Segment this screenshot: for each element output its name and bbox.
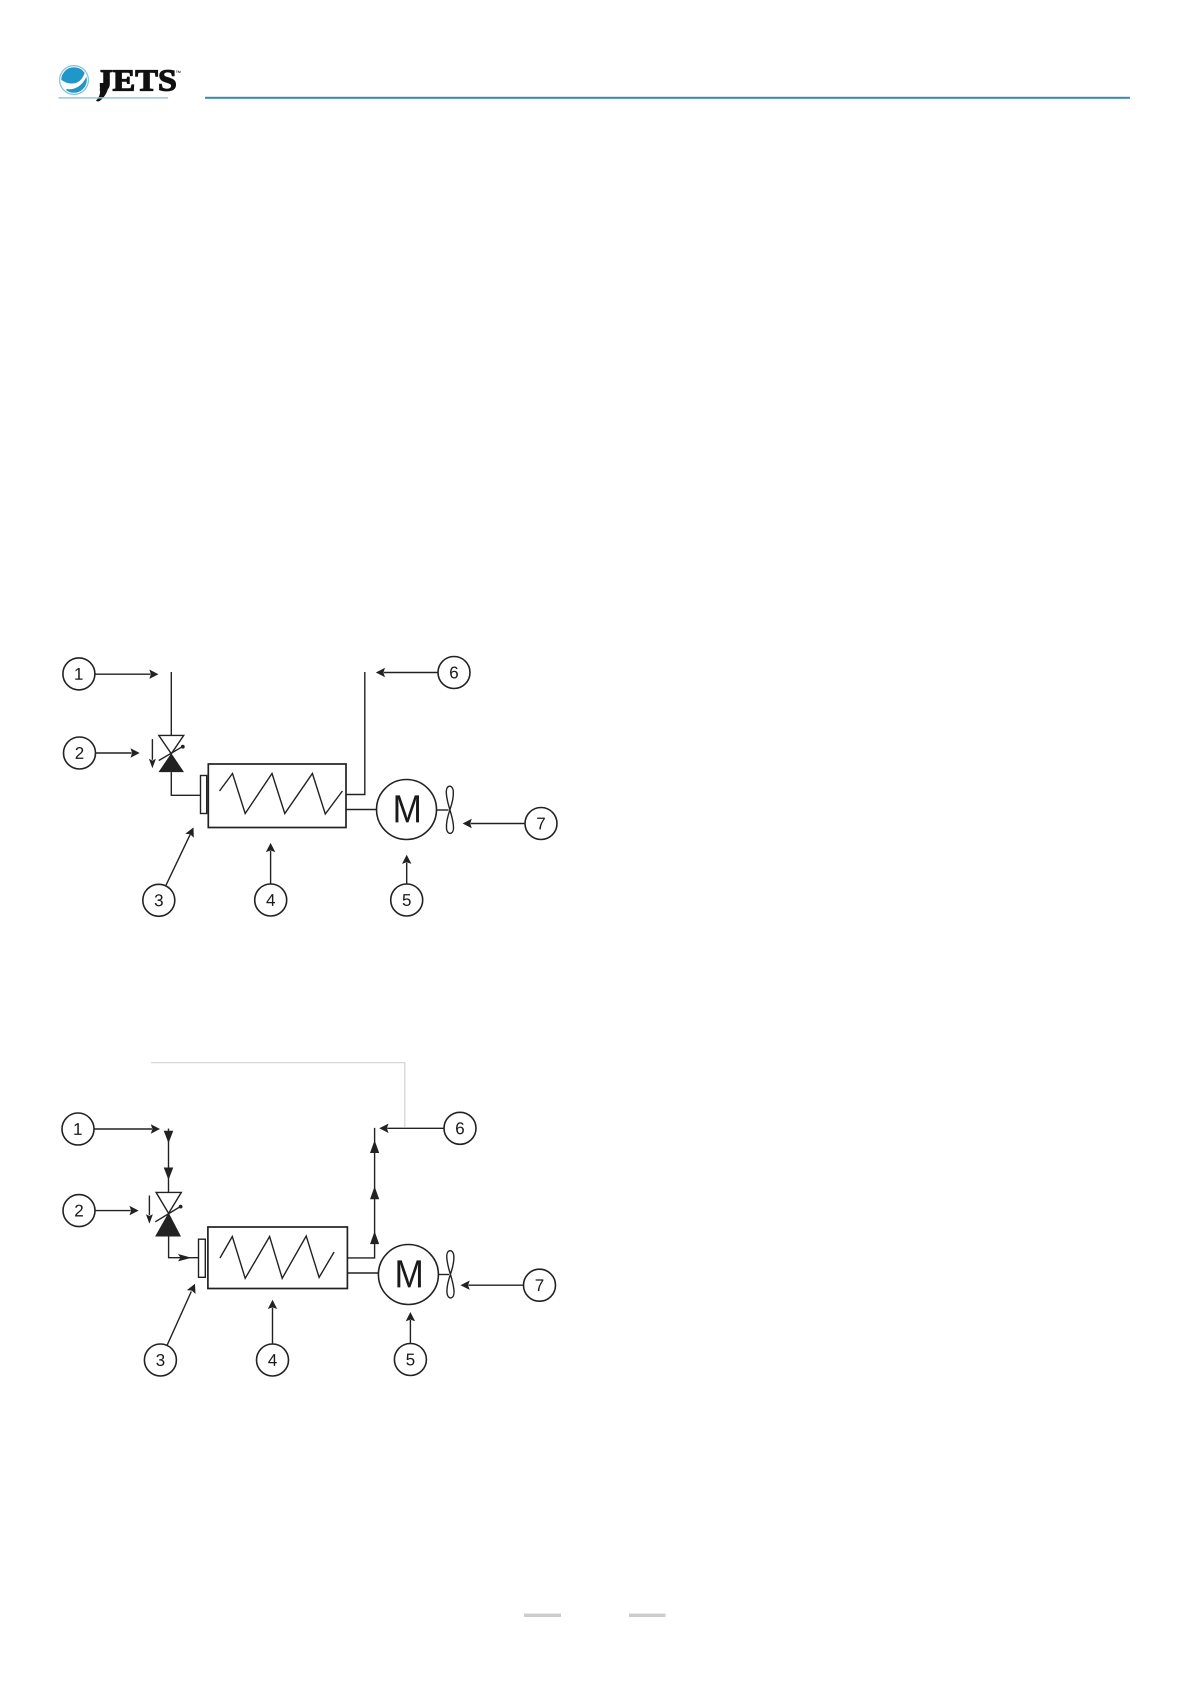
discharge flow arrow c2 [370, 1186, 379, 1199]
callout arrow 6 [376, 668, 438, 677]
valve V1 bottom triangle [159, 753, 185, 772]
inlet pipe [170, 672, 172, 735]
callout label 1b [74, 1123, 81, 1135]
fan F2 [447, 1251, 454, 1298]
callout arrow 7b [461, 1281, 524, 1290]
callout arrow 4b [268, 1300, 277, 1344]
callout arrow 5b [406, 1312, 415, 1344]
callout arrow 4 [266, 843, 275, 884]
motor M1 body [377, 780, 437, 840]
callout circle 2 [64, 737, 96, 769]
callout label 7b [536, 1279, 544, 1291]
valve V1 stem [159, 745, 185, 761]
callout circle 7b [524, 1269, 556, 1301]
pump inlet flange [201, 776, 207, 814]
callout arrow 1b [94, 1124, 160, 1133]
callout arrow 2 [96, 748, 140, 757]
logo underline [59, 97, 169, 98]
motor M2 body [378, 1245, 438, 1305]
footer mark left [524, 1614, 561, 1617]
callout circle 6b [444, 1112, 476, 1144]
discharge pipe b [347, 1128, 374, 1258]
fan F1 [446, 786, 453, 833]
callout label 6 [450, 666, 458, 678]
callout circle 5b [394, 1344, 426, 1376]
JETS logo wordmark [97, 71, 112, 91]
callout circle 1 [63, 658, 95, 690]
motor M1 label [396, 795, 419, 822]
callout circle 3b [144, 1344, 176, 1376]
callout circle 7 [525, 808, 557, 840]
inlet flow arrow b3 [178, 1254, 192, 1261]
callout label 4b [268, 1354, 277, 1366]
valve V2 bottom triangle [155, 1213, 181, 1237]
callout label 5b [406, 1354, 414, 1366]
pipe below valve [171, 772, 200, 795]
callout circle 4b [257, 1344, 289, 1376]
callout label 2b [75, 1205, 83, 1217]
callout circle 1b [62, 1113, 94, 1145]
discharge flow arrow c1 [370, 1140, 379, 1153]
valve V1 top triangle [159, 735, 184, 753]
callout circle 4 [255, 884, 287, 916]
ghost routing line [151, 1063, 405, 1127]
callout label 5 [403, 894, 411, 906]
callout circle 5 [391, 884, 423, 916]
pump screw [220, 774, 343, 815]
callout label 3b [156, 1354, 164, 1366]
JETS logo icon ring [60, 66, 89, 95]
JETS logo icon swoosh pocket [61, 80, 74, 91]
footer mark right [629, 1614, 666, 1617]
pump casing P2 [208, 1227, 348, 1289]
fan shaft b [438, 1274, 449, 1276]
callout label 1 [75, 668, 82, 680]
valve V2 flow arrow [146, 1196, 153, 1224]
pump screw b [220, 1236, 334, 1278]
inlet flow arrow b1 [164, 1131, 174, 1144]
pipe below valve b [169, 1237, 199, 1258]
pump inlet flange b [199, 1239, 206, 1277]
JETS logo icon ball [61, 67, 87, 93]
inlet flow arrow b2 [164, 1168, 174, 1181]
motor shaft link b [347, 1272, 378, 1274]
header rule [205, 97, 1130, 99]
valve V2 top triangle [156, 1192, 181, 1213]
callout circle 3 [143, 884, 175, 916]
motor shaft link [346, 809, 377, 811]
JETS logo J descender [93, 83, 100, 94]
callout arrow 1 [95, 670, 159, 679]
pump casing P1 [208, 764, 346, 828]
JETS logo icon swoosh [61, 72, 86, 89]
motor M2 label [397, 1260, 420, 1287]
callout label 2 [76, 747, 84, 759]
fan shaft [437, 809, 449, 811]
callout label 3 [155, 894, 163, 906]
callout label 6b [456, 1122, 464, 1134]
callout label 4 [266, 894, 275, 906]
callout label 7 [537, 818, 545, 830]
callout arrow 5 [402, 855, 411, 884]
discharge flow arrow c3 [370, 1231, 379, 1244]
callout arrow 3b [167, 1284, 196, 1346]
callout circle 6 [438, 657, 470, 689]
callout arrow 2b [95, 1206, 139, 1215]
callout arrow 3 [166, 827, 194, 886]
callout circle 2b [63, 1195, 95, 1227]
inlet pipe b [168, 1129, 170, 1193]
valve V1 flow arrow [149, 739, 156, 768]
discharge pipe [346, 672, 365, 795]
valve V2 stem [155, 1205, 182, 1222]
callout arrow 6b [379, 1124, 444, 1133]
callout arrow 7 [463, 819, 525, 828]
